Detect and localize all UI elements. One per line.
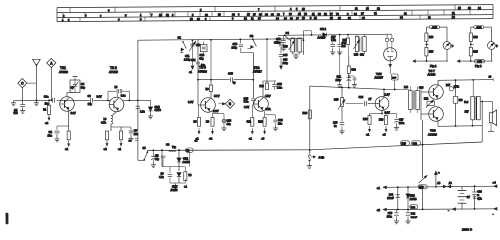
svg-text:B1P: B1P (392, 78, 397, 80)
svg-text:+2: +2 (209, 136, 213, 140)
svg-text:AC107: AC107 (375, 75, 384, 79)
svg-text:C28: C28 (477, 190, 482, 193)
svg-text:0.8V: 0.8V (97, 95, 102, 98)
svg-text:AF117: AF117 (253, 70, 262, 74)
svg-text:+1: +1 (65, 147, 69, 151)
svg-text:100uF: 100uF (387, 198, 394, 200)
svg-text:140p: 140p (275, 41, 281, 44)
svg-text:C63335: C63335 (5, 213, 9, 224)
svg-text:R8: R8 (194, 121, 198, 124)
svg-text:+4: +4 (493, 180, 497, 184)
svg-text:8p: 8p (233, 82, 236, 85)
svg-text:5+4: 5+4 (464, 102, 469, 104)
svg-text:S2: S2 (250, 34, 254, 38)
svg-text:AF116: AF116 (198, 69, 207, 73)
svg-text:R15: R15 (334, 99, 339, 102)
svg-text:56p: 56p (200, 57, 205, 60)
svg-text:R15: R15 (473, 52, 478, 54)
svg-text:+1: +1 (366, 133, 370, 137)
svg-text:AA119: AA119 (318, 36, 326, 40)
svg-text:0.9V: 0.9V (71, 112, 76, 115)
svg-text:33p: 33p (81, 86, 86, 89)
svg-text:R13: R13 (354, 55, 359, 57)
svg-text:C19: C19 (388, 212, 393, 215)
svg-text:C30: C30 (419, 87, 424, 90)
svg-text:L10: L10 (404, 86, 409, 89)
svg-text:C1a: C1a (44, 96, 49, 99)
svg-text:0.8V: 0.8V (188, 100, 194, 104)
svg-text:OA79: OA79 (155, 109, 162, 112)
svg-text:S1: S1 (178, 35, 182, 39)
svg-text:A6: A6 (437, 182, 441, 185)
svg-text:R19: R19 (363, 118, 368, 121)
svg-text:27p: 27p (88, 103, 93, 106)
svg-text:S5: S5 (143, 147, 147, 150)
svg-text:A6: A6 (449, 182, 453, 185)
svg-text:C2: C2 (49, 130, 53, 134)
svg-text:C26: C26 (359, 96, 364, 99)
svg-text:C32: C32 (411, 214, 416, 216)
svg-text:100n: 100n (336, 80, 342, 82)
svg-text:600: 600 (459, 100, 464, 102)
svg-text:750: 750 (13, 111, 18, 115)
svg-text:12n: 12n (278, 122, 283, 125)
svg-text:C35: C35 (283, 54, 288, 57)
svg-text:R14: R14 (352, 70, 357, 72)
svg-text:70p: 70p (172, 146, 177, 149)
svg-text:R21: R21 (424, 98, 429, 101)
svg-text:GR8: GR8 (410, 195, 416, 198)
svg-text:+3: +3 (383, 133, 387, 137)
svg-text:100n: 100n (387, 217, 393, 219)
svg-text:+1: +1 (118, 147, 122, 151)
svg-text:2-22p: 2-22p (184, 58, 191, 61)
svg-text:Fig 2: Fig 2 (475, 64, 482, 68)
svg-text:C6: C6 (88, 95, 92, 98)
svg-text:-: - (493, 212, 494, 216)
svg-text:R16: R16 (429, 37, 434, 39)
svg-text:+1: +1 (377, 186, 381, 190)
svg-text:Fig.1: Fig.1 (430, 64, 437, 68)
svg-text:100u: 100u (399, 123, 405, 125)
svg-text:+2: +2 (104, 147, 108, 151)
svg-text:R9: R9 (206, 121, 210, 124)
svg-text:R25: R25 (402, 144, 407, 146)
svg-text:S4B: S4B (319, 156, 325, 160)
svg-text:75p: 75p (155, 158, 160, 161)
svg-text:AC/28: AC/28 (428, 72, 436, 76)
svg-text:4,7n: 4,7n (477, 198, 482, 200)
svg-text:11V: 11V (465, 111, 469, 113)
svg-text:C1: C1 (14, 108, 18, 112)
svg-text:5.7V: 5.7V (214, 94, 220, 98)
svg-text:AF116: AF116 (59, 70, 68, 74)
svg-text:1.5u: 1.5u (140, 111, 145, 114)
svg-text:R16: R16 (303, 112, 308, 115)
svg-text:R9: R9 (206, 88, 210, 91)
svg-text:4365: 4365 (476, 27, 482, 29)
svg-text:13n: 13n (48, 134, 53, 138)
svg-text:R16: R16 (473, 37, 478, 39)
svg-text:+1: +1 (184, 186, 187, 189)
svg-text:+3: +3 (261, 136, 265, 140)
svg-text:7.5n: 7.5n (331, 39, 336, 42)
svg-text:9V: 9V (467, 196, 470, 199)
svg-text:1n2: 1n2 (342, 45, 347, 48)
svg-text:M: M (477, 195, 479, 197)
svg-text:1Y: 1Y (369, 98, 372, 101)
svg-text:GR 2: GR 2 (320, 28, 326, 31)
svg-text:C14: C14 (191, 59, 196, 62)
svg-text:P: P (496, 45, 498, 48)
svg-text:+2: +2 (377, 208, 381, 212)
svg-text:0.6V: 0.6V (244, 106, 249, 109)
svg-text:7.5n: 7.5n (244, 101, 249, 104)
svg-text:A: A (50, 61, 53, 65)
svg-text:AA119: AA119 (171, 189, 179, 192)
svg-text:R20: R20 (379, 119, 384, 122)
svg-text:3.3u: 3.3u (121, 95, 126, 98)
svg-text:+1: +1 (249, 136, 253, 140)
svg-text:0.8V: 0.8V (385, 112, 390, 115)
svg-text:0.9V: 0.9V (213, 109, 219, 113)
svg-text:+: + (438, 171, 440, 175)
svg-text:R17: R17 (446, 85, 451, 87)
svg-text:+1: +1 (189, 71, 192, 74)
svg-text:C35: C35 (228, 72, 233, 76)
svg-text:R11: R11 (247, 121, 252, 124)
svg-text:180p: 180p (283, 62, 289, 65)
svg-text:1.8V: 1.8V (385, 93, 390, 96)
svg-text:AA119: AA119 (410, 198, 417, 201)
svg-text:B2D: B2D (411, 207, 416, 209)
svg-text:C25: C25 (333, 122, 338, 125)
svg-text:ab: ab (489, 76, 492, 79)
svg-text:C20: C20 (277, 82, 282, 86)
svg-text:B: B (229, 102, 232, 106)
svg-text:C8: C8 (166, 142, 170, 146)
svg-text:2.2n: 2.2n (277, 86, 283, 90)
svg-text:4.5V: 4.5V (265, 94, 271, 98)
svg-text:800uF: 800uF (411, 217, 418, 219)
svg-text:R12: R12 (258, 121, 263, 124)
svg-text:+2: +2 (45, 121, 49, 125)
svg-text:4.7n: 4.7n (159, 176, 164, 179)
svg-text:AC128: AC128 (428, 132, 437, 136)
svg-text:4.7u: 4.7u (101, 122, 106, 125)
svg-text:270k: 270k (454, 86, 460, 88)
svg-text:S4: S4 (286, 31, 290, 35)
svg-text:P: P (452, 45, 454, 48)
svg-text:R6: R6 (189, 175, 193, 177)
svg-text:R15: R15 (429, 52, 434, 54)
svg-text:140p: 140p (232, 46, 238, 49)
svg-text:-: - (448, 209, 449, 213)
svg-text:47n: 47n (227, 123, 232, 126)
svg-text:1610 C: 1610 C (462, 228, 473, 232)
svg-text:R15: R15 (343, 40, 348, 42)
svg-text:C27: C27 (399, 119, 404, 122)
svg-text:R1: R1 (43, 109, 47, 112)
svg-text:C34: C34 (389, 193, 394, 196)
svg-text:L5: L5 (115, 86, 118, 89)
svg-text:C: C (21, 81, 24, 85)
svg-text:C30: C30 (413, 144, 418, 146)
svg-text:R12: R12 (260, 86, 265, 88)
svg-text:18p: 18p (201, 64, 206, 67)
svg-text:AF115: AF115 (109, 70, 118, 74)
svg-text:82k: 82k (360, 55, 365, 57)
svg-text:0.6A: 0.6A (266, 108, 271, 111)
svg-text:4365: 4365 (432, 27, 438, 29)
svg-text:5u: 5u (334, 126, 337, 128)
